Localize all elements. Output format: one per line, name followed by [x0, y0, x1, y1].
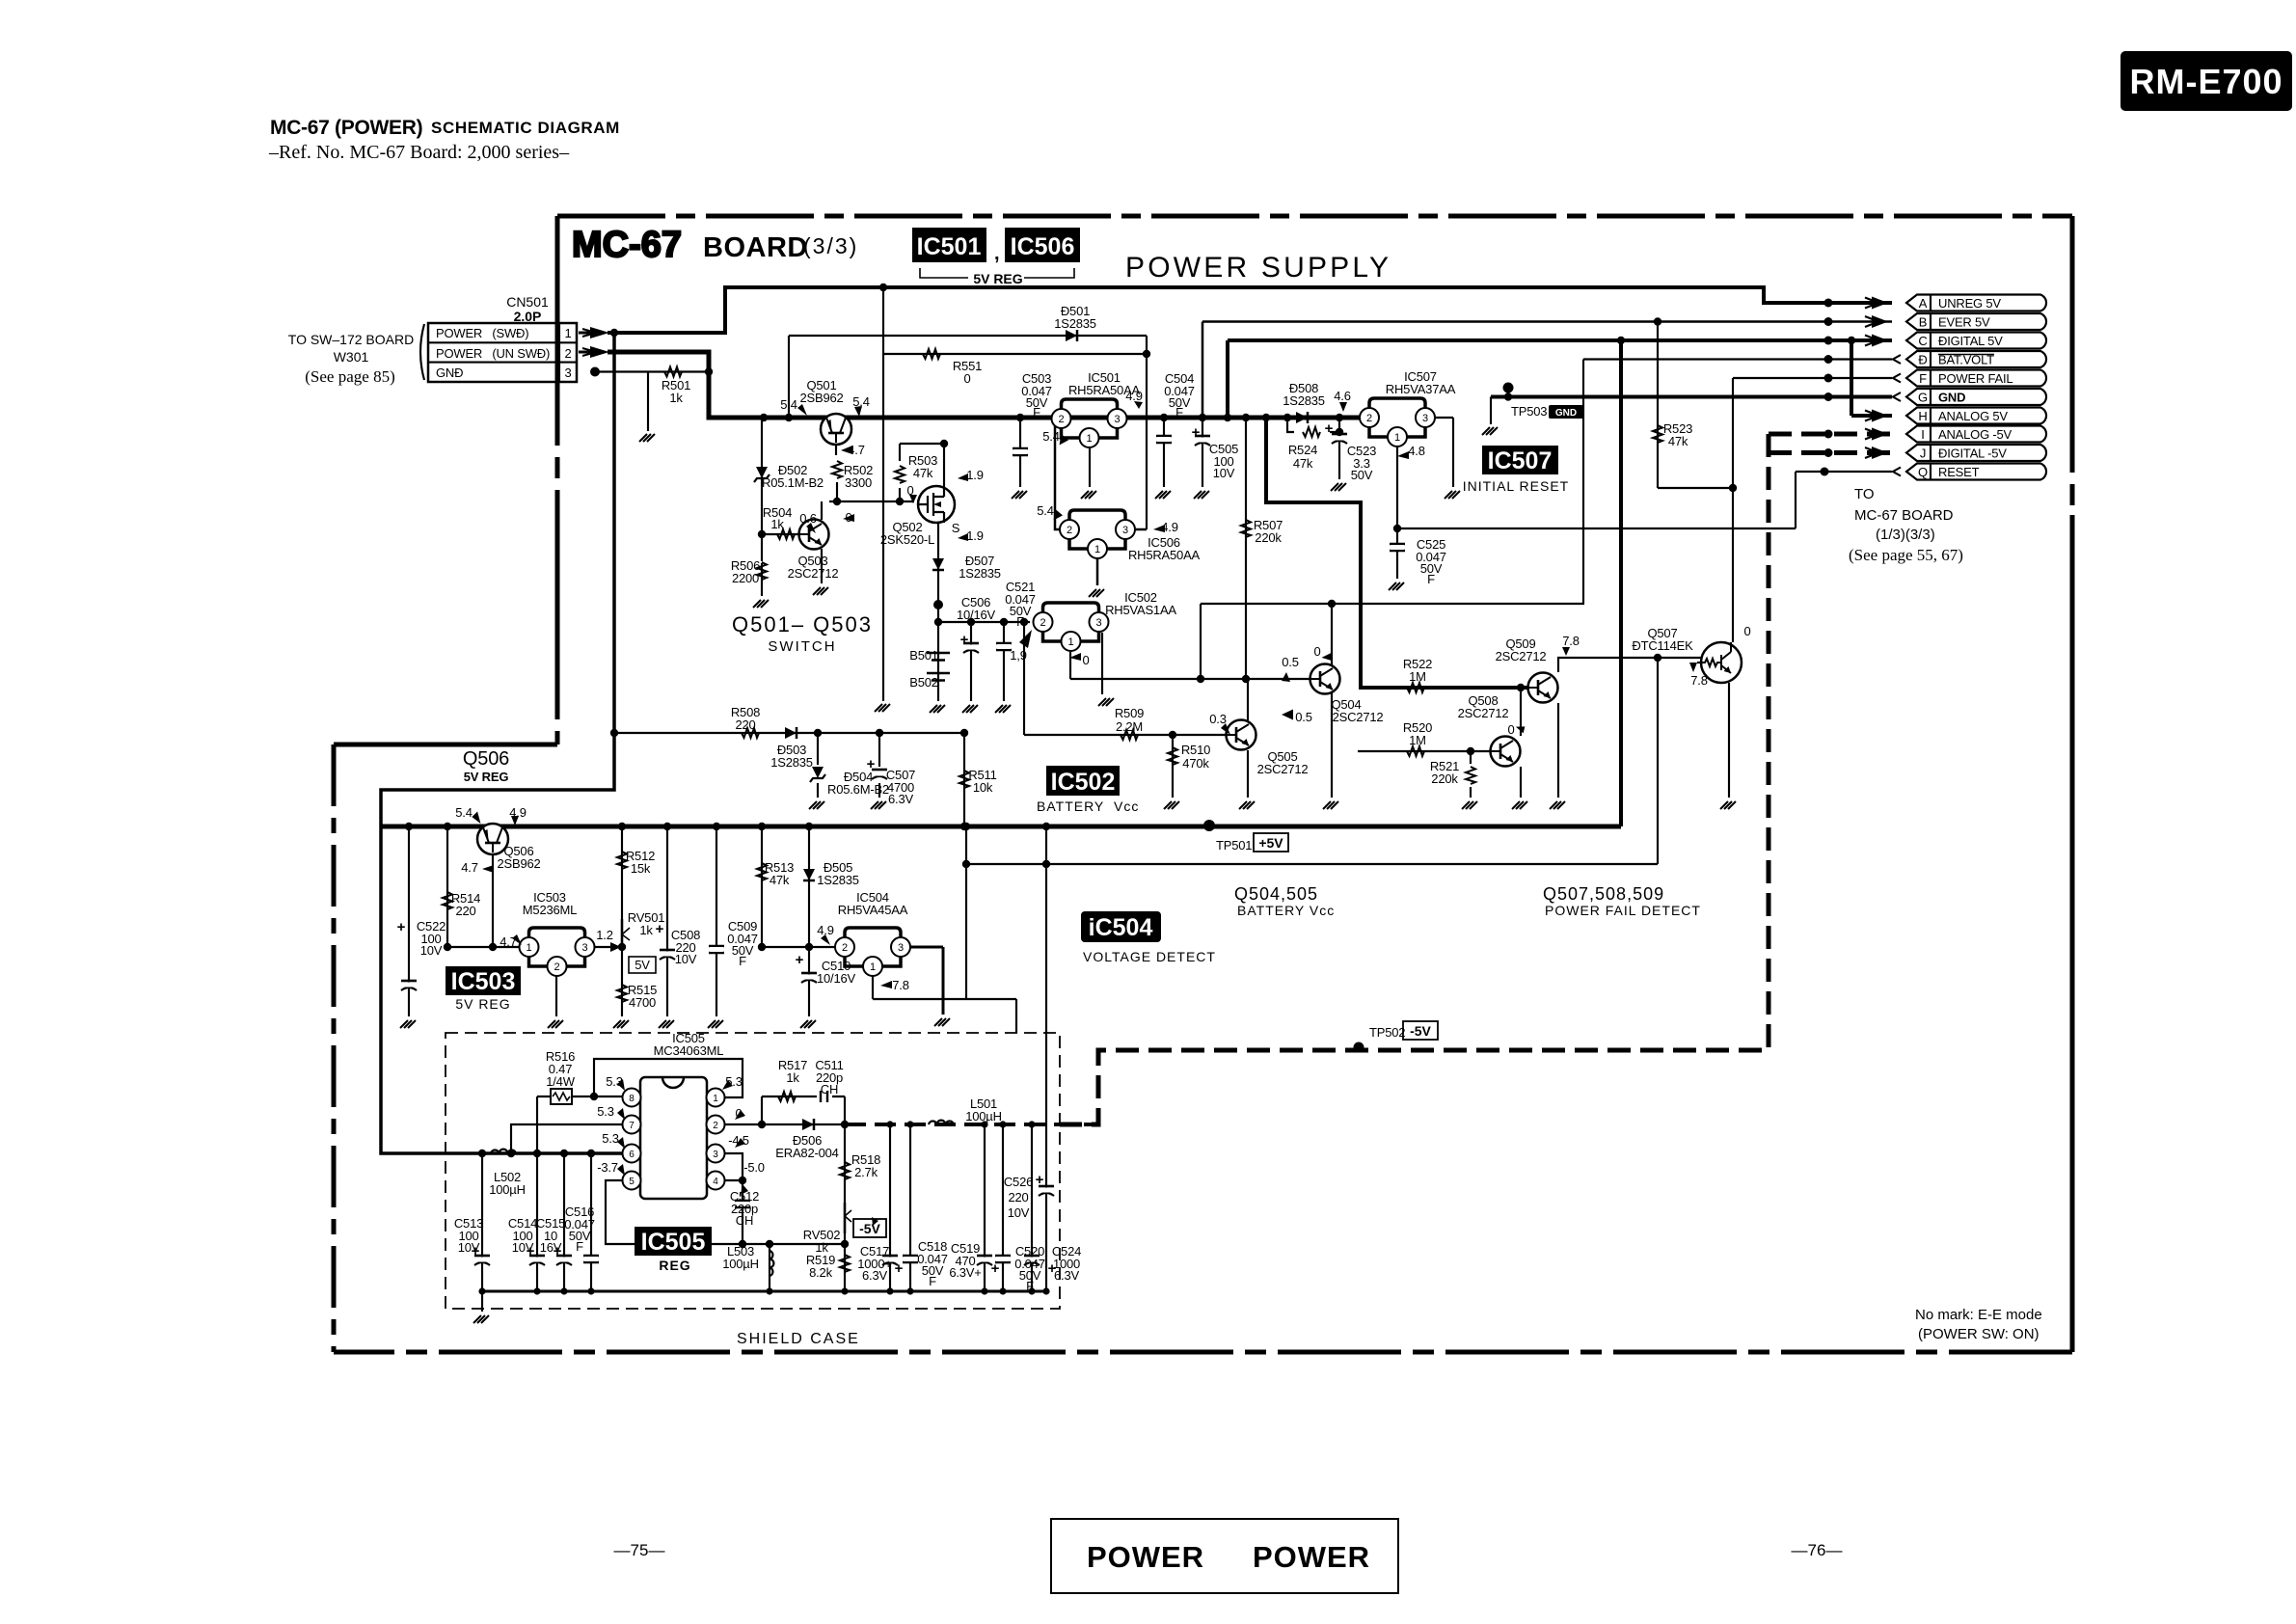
svg-text:BOARD: BOARD: [703, 232, 808, 263]
svg-text:RH5VA45AA: RH5VA45AA: [838, 903, 908, 917]
svg-text:47k: 47k: [770, 873, 790, 887]
svg-text:47k: 47k: [1293, 456, 1313, 471]
svg-text:RH5VA37AA: RH5VA37AA: [1386, 382, 1456, 396]
svg-text:(POWER SW: ON): (POWER SW: ON): [1918, 1326, 2039, 1342]
svg-text:2.7k: 2.7k: [854, 1165, 878, 1179]
svg-text:B502: B502: [909, 675, 938, 690]
svg-text:Q507,508,509: Q507,508,509: [1543, 884, 1664, 904]
svg-text:ĐIGITAL 5V: ĐIGITAL 5V: [1938, 334, 2003, 348]
svg-text:POWER: POWER: [1087, 1540, 1204, 1574]
svg-text:3: 3: [581, 942, 587, 954]
svg-text:2: 2: [1058, 414, 1064, 425]
svg-text:+: +: [867, 756, 876, 772]
svg-text:ANALOG 5V: ANALOG 5V: [1938, 409, 2008, 423]
svg-text:2SB962: 2SB962: [497, 856, 540, 871]
svg-text:0: 0: [1507, 722, 1514, 737]
svg-text:1k: 1k: [786, 1070, 799, 1085]
svg-text:I: I: [1921, 427, 1924, 442]
svg-text:8.2k: 8.2k: [809, 1265, 832, 1280]
svg-text:-5V: -5V: [859, 1221, 880, 1236]
svg-text:1: 1: [1394, 432, 1400, 444]
svg-text:2: 2: [564, 346, 571, 361]
svg-text:0.5: 0.5: [1295, 710, 1311, 724]
svg-text:5V REG: 5V REG: [455, 996, 510, 1012]
svg-text:2: 2: [1067, 525, 1072, 536]
svg-text:4700: 4700: [629, 995, 656, 1010]
svg-text:10V: 10V: [1008, 1205, 1030, 1220]
svg-text:1/4W: 1/4W: [546, 1074, 575, 1089]
svg-text:15k: 15k: [631, 861, 651, 876]
svg-text:4.7: 4.7: [461, 860, 477, 875]
svg-text:SWITCH: SWITCH: [768, 638, 836, 655]
svg-text:A: A: [1919, 296, 1928, 311]
svg-text:+: +: [796, 952, 804, 968]
svg-text:H: H: [1918, 409, 1927, 423]
svg-text:220: 220: [455, 904, 475, 918]
svg-text:F: F: [929, 1274, 936, 1288]
svg-text:(1/3)(3/3): (1/3)(3/3): [1876, 527, 1935, 543]
svg-text:10V: 10V: [420, 943, 443, 958]
svg-text:IC506: IC506: [1011, 233, 1075, 260]
svg-text:5.3: 5.3: [602, 1131, 618, 1146]
svg-text:0.5: 0.5: [1282, 655, 1298, 669]
svg-text:1k: 1k: [669, 391, 683, 405]
svg-text:220k: 220k: [1431, 771, 1458, 786]
svg-text:F: F: [1427, 572, 1435, 586]
svg-text:220: 220: [735, 717, 755, 732]
svg-text:3: 3: [1122, 525, 1128, 536]
svg-text:+5V: +5V: [1258, 835, 1283, 851]
svg-text:1.9: 1.9: [966, 528, 983, 543]
svg-text:7: 7: [629, 1121, 635, 1131]
svg-text:M5236ML: M5236ML: [523, 903, 577, 917]
svg-text:IC501: IC501: [917, 233, 982, 260]
svg-text:6: 6: [629, 1150, 635, 1160]
svg-text:+: +: [991, 1260, 1000, 1277]
svg-text:0.3: 0.3: [1209, 712, 1226, 726]
svg-text:1k: 1k: [639, 923, 653, 937]
svg-text:IC507: IC507: [1488, 447, 1553, 474]
svg-text:2SK520-L: 2SK520-L: [880, 532, 934, 547]
svg-text:470k: 470k: [1182, 756, 1209, 771]
svg-text:0: 0: [1743, 624, 1750, 638]
svg-text:+: +: [527, 1243, 535, 1259]
svg-text:3: 3: [1422, 413, 1428, 424]
svg-text:—76—: —76—: [1792, 1541, 1843, 1559]
svg-text:+: +: [1325, 420, 1334, 437]
svg-text:INITIAL RESET: INITIAL RESET: [1463, 478, 1570, 494]
svg-text:POWER: POWER: [1253, 1540, 1370, 1574]
svg-text:5.4: 5.4: [780, 397, 797, 412]
svg-text:4.6: 4.6: [1334, 389, 1350, 403]
svg-text:0: 0: [1082, 653, 1089, 667]
svg-text:BATTERY Vcc: BATTERY Vcc: [1237, 903, 1335, 918]
svg-text:3300: 3300: [845, 475, 872, 490]
svg-text:2SC2712: 2SC2712: [788, 566, 839, 581]
svg-text:100µH: 100µH: [489, 1182, 526, 1197]
svg-text:-5.0: -5.0: [743, 1160, 765, 1175]
svg-text:3: 3: [898, 942, 904, 954]
svg-text:TO: TO: [1854, 486, 1875, 502]
svg-text:R510: R510: [1181, 743, 1210, 757]
svg-text:10/16V: 10/16V: [817, 971, 856, 986]
svg-text:MC-67 BOARD: MC-67 BOARD: [1854, 507, 1954, 524]
svg-text:MC-67 (POWER): MC-67 (POWER): [270, 117, 422, 139]
svg-text:1S2835: 1S2835: [1054, 316, 1096, 331]
svg-text:(3/3): (3/3): [803, 233, 858, 258]
svg-text:1S2835: 1S2835: [817, 873, 859, 887]
svg-text:10V: 10V: [675, 952, 697, 966]
svg-text:F: F: [576, 1239, 583, 1254]
svg-text:RESET: RESET: [1938, 465, 1980, 479]
svg-text:5.4: 5.4: [1037, 503, 1053, 518]
svg-text:F: F: [1919, 371, 1927, 386]
svg-text:RH5VAS1AA: RH5VAS1AA: [1105, 603, 1176, 617]
svg-text:5: 5: [629, 1177, 635, 1187]
svg-text:–Ref. No. MC-67 Board: 2,000 s: –Ref. No. MC-67 Board: 2,000 series–: [268, 142, 570, 163]
svg-text:POWER SUPPLY: POWER SUPPLY: [1125, 252, 1391, 284]
svg-text:GND: GND: [1555, 408, 1577, 419]
svg-text:5.4: 5.4: [455, 805, 472, 820]
svg-text:6.3V: 6.3V: [888, 792, 913, 806]
svg-text:iC504: iC504: [1089, 914, 1153, 941]
svg-text:CN501: CN501: [506, 294, 549, 310]
svg-text:0.6: 0.6: [799, 511, 816, 526]
svg-text:50V: 50V: [1351, 468, 1373, 482]
svg-text:GND: GND: [1938, 391, 1965, 405]
svg-text:100µH: 100µH: [722, 1257, 759, 1271]
svg-text:F: F: [1175, 405, 1183, 420]
svg-text:C: C: [1918, 334, 1927, 348]
svg-text:4.8: 4.8: [1408, 444, 1424, 458]
svg-text:SCHEMATIC DIAGRAM: SCHEMATIC DIAGRAM: [431, 119, 620, 137]
svg-text:1,9: 1,9: [1010, 648, 1026, 663]
svg-text:1M: 1M: [1409, 733, 1426, 747]
svg-text:-3.7: -3.7: [597, 1160, 618, 1175]
svg-text:W301: W301: [334, 349, 369, 365]
svg-text:(See page 55, 67): (See page 55, 67): [1849, 546, 1963, 564]
svg-text:+: +: [472, 1243, 480, 1259]
svg-text:47k: 47k: [913, 466, 933, 480]
svg-text:0: 0: [1313, 644, 1320, 659]
svg-text:+: +: [1192, 424, 1201, 441]
svg-text:TP502: TP502: [1369, 1025, 1405, 1040]
svg-text:47k: 47k: [1668, 434, 1688, 448]
svg-text:2SC2712: 2SC2712: [1458, 706, 1509, 720]
svg-text:3: 3: [713, 1150, 718, 1160]
svg-text:(See page 85): (See page 85): [305, 367, 394, 386]
svg-text:3: 3: [1114, 414, 1120, 425]
svg-text:1: 1: [1094, 544, 1100, 555]
svg-text:S: S: [952, 521, 960, 535]
svg-text:1M: 1M: [1409, 669, 1426, 684]
svg-text:RH5RA50AA: RH5RA50AA: [1128, 548, 1201, 562]
svg-text:TP503: TP503: [1511, 404, 1547, 419]
svg-text:5.4: 5.4: [1042, 429, 1059, 444]
svg-text:F: F: [1016, 614, 1024, 629]
svg-text:Q504,505: Q504,505: [1234, 884, 1318, 904]
svg-text:F: F: [739, 954, 746, 968]
svg-text:POWER (UN SWĐ): POWER (UN SWĐ): [436, 346, 550, 361]
svg-text:J: J: [1920, 447, 1926, 461]
svg-text:+: +: [895, 1260, 904, 1277]
svg-text:6.3V+: 6.3V+: [949, 1265, 981, 1280]
svg-text:-5V: -5V: [1410, 1023, 1431, 1039]
svg-text:2: 2: [842, 942, 848, 954]
svg-text:7.8: 7.8: [892, 978, 908, 992]
svg-text:1: 1: [713, 1094, 718, 1104]
svg-text:TP501: TP501: [1216, 838, 1252, 853]
svg-text:7.8: 7.8: [1690, 673, 1707, 688]
svg-text:2SC2712: 2SC2712: [1333, 710, 1384, 724]
svg-text:VOLTAGE DETECT: VOLTAGE DETECT: [1083, 949, 1216, 964]
svg-text:+: +: [656, 921, 664, 937]
svg-text:220k: 220k: [1255, 530, 1282, 545]
svg-text:4.9: 4.9: [1125, 389, 1142, 403]
svg-text:Q506: Q506: [463, 748, 509, 770]
svg-text:ANALOG -5V: ANALOG -5V: [1938, 427, 2012, 442]
svg-text:6.3V: 6.3V: [862, 1268, 887, 1283]
svg-text:CH: CH: [736, 1213, 753, 1228]
svg-text:1: 1: [1067, 636, 1073, 648]
svg-text:MC34063ML: MC34063ML: [654, 1043, 724, 1058]
svg-text:B501: B501: [909, 648, 938, 663]
svg-text:TO SW–172 BOARD: TO SW–172 BOARD: [288, 332, 414, 347]
svg-text:3: 3: [1095, 617, 1101, 629]
svg-text:Q: Q: [1918, 465, 1928, 479]
svg-text:C526: C526: [1004, 1175, 1033, 1189]
svg-text:1S2835: 1S2835: [1283, 393, 1325, 408]
svg-text:5.3: 5.3: [597, 1104, 613, 1119]
svg-text:1.9: 1.9: [966, 468, 983, 482]
svg-text:1k: 1k: [770, 517, 784, 531]
svg-text:+: +: [397, 919, 406, 935]
svg-text:2: 2: [554, 961, 559, 973]
svg-text:Đ: Đ: [1918, 353, 1927, 367]
svg-text:—75—: —75—: [614, 1541, 665, 1559]
svg-text:220: 220: [1008, 1190, 1028, 1204]
svg-text:Q501– Q503: Q501– Q503: [732, 612, 873, 636]
svg-text:,: ,: [994, 243, 1000, 264]
svg-text:10k: 10k: [973, 780, 993, 795]
svg-text:R509: R509: [1115, 706, 1144, 720]
svg-text:RM-E700: RM-E700: [2129, 62, 2282, 101]
svg-text:+: +: [554, 1243, 562, 1259]
svg-text:2: 2: [1040, 617, 1045, 629]
svg-text:2SC2712: 2SC2712: [1257, 762, 1309, 776]
svg-text:EVER 5V: EVER 5V: [1938, 315, 1990, 330]
svg-text:2.2M: 2.2M: [1116, 719, 1143, 734]
svg-text:2.0P: 2.0P: [514, 309, 542, 324]
svg-text:+: +: [1048, 1260, 1057, 1277]
svg-text:5V REG: 5V REG: [464, 770, 509, 784]
svg-text:1S2835: 1S2835: [770, 755, 813, 770]
svg-text:7.8: 7.8: [1562, 634, 1579, 648]
svg-text:IC505: IC505: [641, 1229, 706, 1256]
svg-text:5V: 5V: [635, 958, 650, 972]
svg-text:1: 1: [870, 961, 876, 973]
svg-text:6.3V: 6.3V: [1054, 1268, 1079, 1283]
svg-text:BATTERY Vcc: BATTERY Vcc: [1037, 798, 1139, 814]
svg-text:2SC2712: 2SC2712: [1496, 649, 1547, 663]
svg-text:UNREG 5V: UNREG 5V: [1938, 296, 2001, 311]
svg-text:ERA82-004: ERA82-004: [775, 1146, 838, 1160]
svg-text:G: G: [1918, 391, 1928, 405]
svg-text:1: 1: [1086, 433, 1092, 445]
svg-text:8: 8: [629, 1094, 635, 1104]
svg-text:R05.1M-B2: R05.1M-B2: [762, 475, 824, 490]
svg-text:CH: CH: [821, 1082, 838, 1096]
svg-text:R524: R524: [1288, 443, 1317, 457]
svg-text:1: 1: [526, 942, 531, 954]
svg-text:10V: 10V: [1213, 466, 1235, 480]
svg-text:R05.6M-B2: R05.6M-B2: [827, 782, 889, 797]
svg-text:No mark: E-E mode: No mark: E-E mode: [1915, 1307, 2042, 1323]
svg-text:MC-67: MC-67: [572, 225, 682, 265]
svg-text:3: 3: [564, 365, 571, 380]
svg-text:+: +: [960, 632, 969, 648]
svg-text:2: 2: [713, 1121, 718, 1131]
svg-text:1S2835: 1S2835: [959, 566, 1001, 581]
svg-text:100µH: 100µH: [965, 1109, 1002, 1123]
svg-text:2SB962: 2SB962: [799, 391, 843, 405]
svg-text:ĐIGITAL -5V: ĐIGITAL -5V: [1938, 447, 2007, 461]
svg-text:2200: 2200: [732, 571, 759, 585]
svg-text:GNĐ: GNĐ: [436, 365, 463, 380]
svg-text:B: B: [1919, 315, 1927, 330]
svg-text:IC503: IC503: [451, 968, 516, 995]
svg-text:0: 0: [963, 371, 970, 386]
svg-text:1: 1: [564, 326, 571, 340]
svg-text:+: +: [1036, 1172, 1044, 1188]
svg-text:1.2: 1.2: [596, 928, 612, 942]
svg-text:5V REG: 5V REG: [973, 271, 1022, 286]
svg-text:ĐTC114EK: ĐTC114EK: [1632, 638, 1693, 653]
svg-text:2: 2: [1366, 413, 1372, 424]
svg-text:POWER FAIL DETECT: POWER FAIL DETECT: [1545, 903, 1701, 918]
svg-text:SHIELD CASE: SHIELD CASE: [737, 1331, 860, 1347]
svg-text:4.7: 4.7: [500, 934, 516, 949]
svg-text:POWER (SWĐ): POWER (SWĐ): [436, 326, 528, 340]
svg-text:F: F: [1026, 1279, 1034, 1293]
svg-text:REG: REG: [659, 1258, 690, 1273]
svg-text:10/16V: 10/16V: [957, 608, 996, 622]
svg-text:POWER FAIL: POWER FAIL: [1938, 371, 2012, 386]
svg-text:4: 4: [713, 1177, 718, 1187]
svg-text:IC502: IC502: [1051, 769, 1116, 796]
svg-text:F: F: [1033, 405, 1040, 420]
